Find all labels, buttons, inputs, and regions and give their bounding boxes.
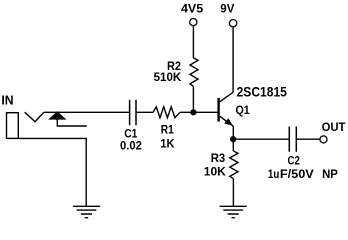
svg-text:1K: 1K bbox=[160, 137, 175, 151]
wire 4V5 to R2 bbox=[192, 26, 194, 58]
wire emitter node to R3 bbox=[232, 139, 234, 151]
capacitor C2 bbox=[289, 127, 296, 152]
svg-text:510K: 510K bbox=[154, 70, 182, 84]
svg-text:1u: 1u bbox=[268, 167, 279, 181]
capacitor C1 bbox=[130, 100, 136, 126]
resistor R2 bbox=[190, 58, 198, 86]
terminal 4V5 bbox=[190, 19, 197, 26]
wire jack tip to C1 bbox=[44, 111, 129, 113]
terminal OUT bbox=[320, 136, 327, 143]
jack tip terminal triangle bbox=[50, 112, 65, 119]
jack J1 body bbox=[7, 113, 19, 139]
resistor R1 bbox=[153, 107, 180, 118]
transistor Q1 base bar bbox=[217, 98, 219, 122]
wire R1 to base node bbox=[180, 111, 218, 113]
svg-text:NP: NP bbox=[322, 167, 338, 181]
resistor R3 bbox=[230, 151, 238, 179]
ground (R3) bbox=[220, 206, 247, 217]
transistor Q1 emitter lead bbox=[220, 116, 234, 139]
ground (jack sleeve) bbox=[73, 206, 100, 217]
svg-text:10K: 10K bbox=[204, 165, 227, 179]
terminal 9V bbox=[229, 20, 236, 27]
wire R2 to base node bbox=[192, 86, 194, 112]
jack tip spring contact bbox=[25, 112, 44, 121]
svg-text:R3: R3 bbox=[211, 151, 226, 165]
svg-text:2SC1815: 2SC1815 bbox=[237, 84, 288, 99]
wire C2 to OUT bbox=[297, 138, 320, 140]
transistor Q1 emitter arrow bbox=[224, 118, 233, 125]
svg-text:R1: R1 bbox=[161, 123, 174, 137]
node emitter junction bbox=[230, 136, 236, 142]
wire emitter node to C2 bbox=[233, 138, 288, 140]
wire R3 to ground bbox=[232, 179, 234, 207]
jack switch contact stub bbox=[57, 119, 87, 126]
svg-text:4V5: 4V5 bbox=[181, 2, 204, 16]
svg-text:IN: IN bbox=[1, 92, 13, 107]
transistor Q1 collector lead bbox=[220, 92, 234, 102]
wire 9V to collector bbox=[232, 27, 234, 92]
svg-text:F/50V: F/50V bbox=[280, 167, 314, 181]
wire jack sleeve to ground bbox=[18, 138, 86, 206]
svg-text:OUT: OUT bbox=[322, 120, 347, 134]
svg-text:C2: C2 bbox=[288, 154, 301, 168]
svg-text:9V: 9V bbox=[220, 2, 234, 16]
node base junction bbox=[190, 109, 196, 115]
svg-text:0.02: 0.02 bbox=[120, 138, 142, 152]
svg-text:Q1: Q1 bbox=[236, 103, 251, 117]
wire C1 to R1 bbox=[137, 111, 154, 113]
